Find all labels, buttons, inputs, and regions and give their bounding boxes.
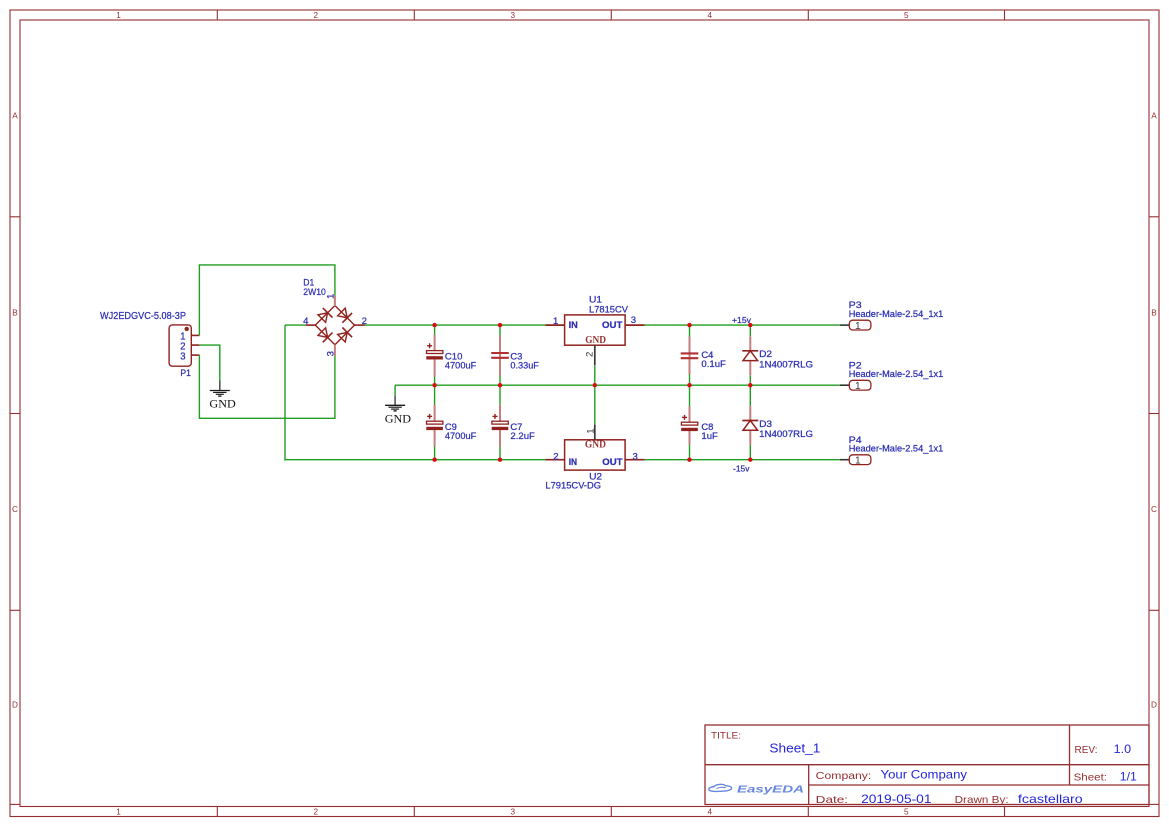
border column numbers bottom [116, 808, 909, 817]
border column tick marks [217, 10, 1004, 817]
svg-text:Company:: Company: [816, 770, 872, 782]
U2 pin 1 stub [594, 425, 596, 440]
bridge rectifier D1 diamond body [315, 306, 354, 345]
D1 pin 3 stub [334, 345, 336, 356]
title block divider rev column [1069, 725, 1071, 785]
svg-text:1: 1 [586, 428, 597, 433]
svg-text:Sheet_1: Sheet_1 [769, 741, 820, 756]
node C7/bottom rail junction [498, 458, 502, 462]
node C9/bottom rail junction [432, 458, 436, 462]
svg-text:GND: GND [209, 399, 235, 411]
svg-text:5: 5 [904, 11, 909, 20]
header P2 pin stub [840, 384, 849, 386]
node C10-C9/mid rail junction [432, 383, 436, 387]
svg-text:1: 1 [855, 455, 861, 466]
wire top rail from bridge pin2 to U1 [365, 324, 546, 326]
wire bottom rail right segment [644, 459, 840, 461]
svg-text:2W10: 2W10 [303, 287, 326, 298]
svg-text:REV:: REV: [1075, 744, 1098, 756]
wire C7 bottom [499, 446, 501, 460]
svg-text:4700uF: 4700uF [445, 431, 477, 442]
svg-text:Drawn By:: Drawn By: [955, 794, 1009, 806]
svg-text:D: D [12, 701, 18, 710]
border row tick marks [10, 217, 1159, 805]
svg-text:4: 4 [303, 316, 309, 327]
svg-text:4: 4 [708, 11, 713, 20]
wire top rail from U1 to P3 [644, 324, 840, 326]
wire U1 gnd pin to middle rail [594, 365, 596, 385]
header P3 body [849, 320, 871, 330]
wire bridge pin4 down riser [284, 325, 286, 460]
voltage regulator U2 body [565, 440, 626, 470]
svg-text:A: A [1151, 112, 1157, 121]
node C3/top rail junction [498, 323, 502, 327]
svg-text:5: 5 [904, 808, 909, 817]
node D2/top rail junction [748, 323, 752, 327]
wire D3 top [749, 385, 751, 407]
svg-text:IN: IN [569, 457, 577, 468]
wire gnd2 drop [394, 385, 396, 395]
diode D3 [742, 406, 758, 445]
svg-text:B: B [12, 309, 18, 318]
wire C10 top [434, 325, 436, 335]
wire C7 top [499, 385, 501, 405]
wire bridge pin4 left [285, 324, 306, 326]
header P4 pin stub [840, 459, 849, 461]
P1 pin 1 stub [191, 334, 199, 336]
D1 diode leg 1-2 [338, 308, 353, 323]
svg-text:2: 2 [553, 451, 558, 462]
svg-text:WJ2EDGVC-5.08-3P: WJ2EDGVC-5.08-3P [100, 311, 186, 322]
wire lower horizontal to bridge pin3 [199, 417, 335, 419]
svg-text:Header-Male-2.54_1x1: Header-Male-2.54_1x1 [849, 369, 944, 380]
wire C4 top [689, 325, 691, 337]
capacitor C3 [491, 335, 509, 376]
D1 diode leg 4-3 [318, 328, 333, 343]
connector P1 pin-1 dot [185, 327, 189, 331]
node C3-C7/mid rail junction [498, 383, 502, 387]
D1 pin 2 stub [354, 324, 364, 326]
P1 pin 2 stub [191, 344, 199, 346]
wire C9 top [434, 385, 436, 405]
diode D2 [742, 336, 758, 375]
svg-text:D: D [1151, 701, 1157, 710]
border row letters right [1151, 112, 1157, 710]
svg-text:2: 2 [362, 316, 367, 327]
header P3 pin stub [840, 324, 849, 326]
P1 pin 3 stub [191, 354, 199, 356]
svg-text:1N4007RLG: 1N4007RLG [759, 359, 813, 370]
header P4 body [849, 455, 871, 465]
svg-text:Header-Male-2.54_1x1: Header-Male-2.54_1x1 [849, 444, 944, 455]
node regulators gnd/mid rail junction [593, 383, 597, 387]
border column numbers top [116, 11, 909, 20]
svg-text:-15v: -15v [733, 464, 750, 473]
svg-text:C: C [12, 505, 18, 514]
D1 diode leg 4-1 [318, 308, 333, 323]
svg-text:1: 1 [116, 11, 121, 20]
U2 pin 2 stub [545, 459, 564, 461]
header P2 body [849, 380, 871, 390]
wire P1 pin2 to gnd corner [199, 344, 220, 346]
svg-text:2.2uF: 2.2uF [510, 431, 535, 442]
wire C8 bottom [689, 444, 691, 460]
svg-text:0.33uF: 0.33uF [510, 361, 539, 372]
node C10/top rail junction [432, 323, 436, 327]
svg-text:1uF: 1uF [701, 431, 718, 442]
D1 diode leg 3-2 [338, 328, 353, 343]
svg-text:GND: GND [585, 335, 606, 346]
svg-text:L7815CV: L7815CV [589, 304, 629, 315]
wire P1 pin1 up-left riser [198, 265, 200, 336]
svg-text:2: 2 [584, 352, 595, 357]
svg-text:Your Company: Your Company [881, 768, 968, 782]
wire top horizontal to bridge pin1 [199, 264, 336, 266]
node D3/bottom rail junction [748, 458, 752, 462]
svg-text:P1: P1 [180, 368, 191, 379]
node C4-C8/mid rail junction [687, 383, 691, 387]
svg-text:1N4007RLG: 1N4007RLG [759, 429, 813, 440]
EasyEDA logo cloud icon [709, 784, 732, 791]
svg-text:3: 3 [631, 315, 636, 326]
svg-text:L7915CV-DG: L7915CV-DG [545, 480, 601, 491]
svg-text:TITLE:: TITLE: [711, 731, 741, 741]
svg-text:3: 3 [511, 11, 516, 20]
title block divider company/date [809, 784, 1149, 786]
svg-text:4: 4 [708, 808, 713, 817]
svg-text:OUT: OUT [602, 457, 622, 468]
wire C3 bottom [499, 375, 501, 385]
D1 pin 1 stub [334, 295, 336, 306]
svg-text:1.0: 1.0 [1114, 742, 1132, 756]
svg-text:3: 3 [180, 351, 186, 362]
U2 pin 3 stub [625, 459, 644, 461]
title block divider logo cell [808, 765, 810, 805]
svg-text:4700uF: 4700uF [445, 361, 477, 372]
capacitor C8 polarized [681, 407, 698, 445]
svg-text:fcastellaro: fcastellaro [1018, 792, 1083, 806]
svg-text:1: 1 [326, 294, 337, 299]
wire C3 top [499, 325, 501, 336]
capacitor C9 polarized [426, 405, 443, 447]
D1 pin 4 stub [306, 324, 316, 326]
ground GND flag 1 [209, 381, 235, 411]
svg-text:IN: IN [569, 320, 578, 331]
svg-text:GND: GND [585, 440, 606, 451]
wire P1 pin3 drop [198, 355, 200, 419]
wire bridge pin1 drop [334, 265, 336, 296]
wire D2 bottom [749, 375, 751, 385]
svg-text:B: B [1151, 309, 1157, 318]
wire C9 bottom [434, 446, 436, 460]
node C4/top rail junction [687, 323, 691, 327]
U1 pin 2 stub [594, 345, 596, 365]
svg-text:Sheet:: Sheet: [1074, 772, 1107, 784]
svg-text:1: 1 [553, 316, 558, 327]
border row letters left [12, 112, 18, 710]
node C8/bottom rail junction [687, 458, 691, 462]
svg-text:3: 3 [633, 452, 638, 463]
svg-text:2: 2 [314, 808, 319, 817]
svg-text:EasyEDA: EasyEDA [737, 784, 804, 795]
svg-text:1/1: 1/1 [1120, 770, 1137, 784]
U1 pin 1 stub [545, 324, 564, 326]
wire middle rail [395, 384, 840, 386]
title block divider under title row [705, 764, 1149, 766]
connector P1 body [169, 325, 191, 366]
wire bottom rail left segment [284, 459, 545, 461]
title block outline [705, 725, 1149, 805]
wire D2 top [749, 325, 751, 336]
wire bridge pin3 drop [334, 356, 336, 419]
wire gnd1 drop [219, 345, 221, 381]
svg-text:OUT: OUT [602, 320, 623, 331]
wire C10 bottom [434, 376, 436, 385]
wire C8 top [689, 385, 691, 407]
node D2-D3/mid rail junction [748, 383, 752, 387]
capacitor C4 [681, 337, 699, 375]
capacitor C10 polarized [426, 335, 443, 377]
svg-text:2019-05-01: 2019-05-01 [861, 792, 932, 806]
svg-text:GND: GND [385, 414, 411, 426]
wire middle rail to U2 gnd pin [594, 385, 596, 424]
svg-text:Header-Male-2.54_1x1: Header-Male-2.54_1x1 [849, 309, 944, 320]
svg-text:3: 3 [325, 351, 336, 356]
wire D3 bottom [749, 445, 751, 460]
voltage regulator U1 body [565, 315, 626, 345]
svg-text:C: C [1151, 505, 1157, 514]
svg-text:1: 1 [116, 808, 121, 817]
svg-text:1: 1 [855, 381, 861, 392]
svg-text:2: 2 [314, 11, 319, 20]
svg-text:0.1uF: 0.1uF [701, 359, 726, 370]
wire C4 bottom [689, 374, 691, 385]
capacitor C7 polarized [492, 405, 509, 447]
svg-text:Date:: Date: [816, 794, 848, 806]
U1 pin 3 stub [625, 324, 644, 326]
svg-text:A: A [12, 112, 18, 121]
ground GND flag 2 [385, 396, 411, 426]
svg-text:1: 1 [855, 321, 861, 332]
svg-text:3: 3 [511, 808, 516, 817]
